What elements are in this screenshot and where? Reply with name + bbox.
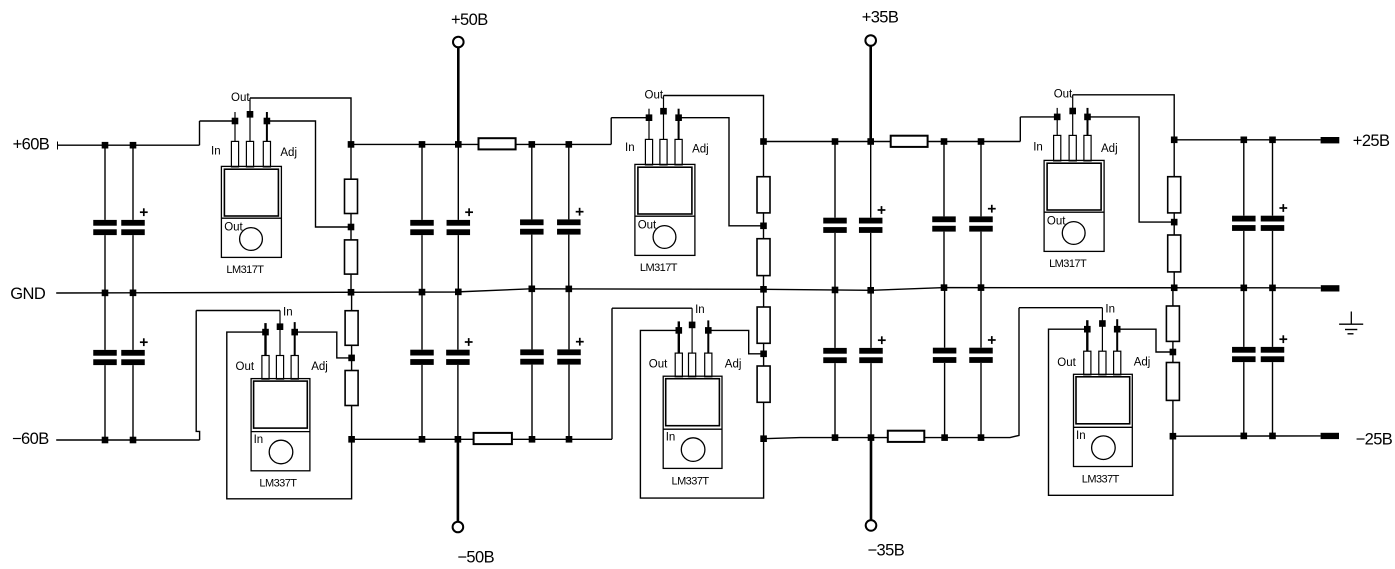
svg-text:LM317T: LM317T: [640, 262, 678, 274]
svg-text:+25B: +25B: [1353, 132, 1390, 150]
svg-text:Out: Out: [649, 359, 668, 371]
svg-text:In: In: [1033, 141, 1043, 153]
svg-text:−25B: −25B: [1356, 431, 1393, 449]
svg-text:Out: Out: [1054, 89, 1073, 101]
svg-text:LM317T: LM317T: [1049, 258, 1087, 270]
svg-text:LM337T: LM337T: [672, 475, 710, 487]
svg-text:In: In: [254, 434, 264, 446]
svg-text:Adj: Adj: [692, 144, 709, 156]
svg-text:+50B: +50B: [451, 11, 488, 29]
svg-text:GND: GND: [10, 285, 46, 303]
svg-text:Out: Out: [236, 361, 255, 373]
svg-text:In: In: [1105, 304, 1115, 316]
svg-text:LM337T: LM337T: [259, 478, 297, 490]
svg-text:Out: Out: [231, 92, 250, 104]
svg-text:Adj: Adj: [1101, 143, 1118, 155]
svg-text:+35B: +35B: [862, 9, 899, 27]
svg-text:Out: Out: [1047, 215, 1066, 227]
svg-text:Adj: Adj: [280, 147, 297, 159]
svg-text:Out: Out: [1057, 357, 1076, 369]
svg-text:In: In: [1076, 430, 1086, 442]
svg-text:Adj: Adj: [311, 361, 328, 373]
svg-text:Out: Out: [224, 221, 243, 233]
svg-text:In: In: [666, 432, 676, 444]
svg-text:In: In: [283, 307, 293, 319]
svg-text:Adj: Adj: [1134, 357, 1151, 369]
svg-text:+60B: +60B: [13, 136, 50, 154]
svg-text:In: In: [625, 142, 635, 154]
svg-text:In: In: [211, 146, 221, 158]
svg-text:−60B: −60B: [12, 430, 49, 448]
svg-text:In: In: [695, 304, 705, 316]
svg-text:−50B: −50B: [457, 548, 494, 566]
svg-text:Adj: Adj: [725, 358, 742, 370]
svg-text:LM337T: LM337T: [1082, 473, 1120, 485]
svg-text:−35B: −35B: [868, 541, 905, 559]
svg-text:LM317T: LM317T: [226, 264, 264, 276]
svg-text:Out: Out: [638, 219, 657, 231]
svg-text:Out: Out: [645, 89, 664, 101]
